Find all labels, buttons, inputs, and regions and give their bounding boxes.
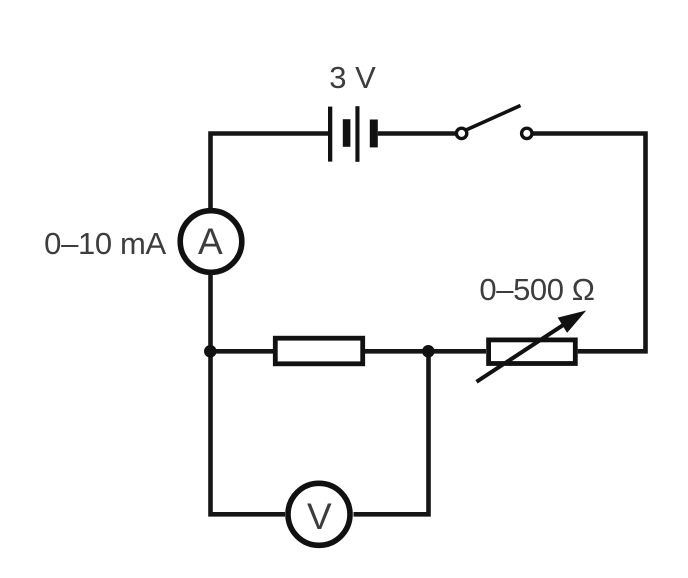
battery BT1 plate short 2 xyxy=(370,120,378,148)
variable resistor R2 body xyxy=(489,340,576,364)
svg-text:3 V: 3 V xyxy=(329,60,376,95)
switch S1 left contact xyxy=(456,128,466,138)
ammeter U1 xyxy=(180,211,242,273)
svg-text:0–10 mA: 0–10 mA xyxy=(44,226,166,261)
battery BT1 plate long 2 xyxy=(355,106,359,162)
voltmeter U2 xyxy=(288,483,350,545)
battery BT1 plate short 1 xyxy=(343,119,351,147)
svg-text:0–500 Ω: 0–500 Ω xyxy=(479,272,594,307)
node A junction dot xyxy=(204,345,217,358)
svg-text:A: A xyxy=(198,221,223,262)
svg-text:V: V xyxy=(307,496,332,537)
resistor R1 xyxy=(275,338,362,364)
node B junction dot xyxy=(422,345,435,358)
switch S1 lever xyxy=(466,106,521,131)
wire node A to resistor R1 xyxy=(211,349,275,354)
wire battery to switch xyxy=(378,131,456,136)
variable resistor R2 arrow xyxy=(477,321,571,382)
switch S1 right contact xyxy=(522,128,532,138)
wire left rail below ammeter to bottom-left corner and to voltmeter xyxy=(211,274,286,514)
battery BT1 plate long 1 xyxy=(328,107,332,162)
wire variable resistor to right rail and up to switch xyxy=(533,134,646,352)
wire top-left and left rail to ammeter xyxy=(211,134,329,210)
wire resistor R1 to variable resistor xyxy=(365,349,486,354)
wire bottom-right from voltmeter up to junction B xyxy=(354,351,429,514)
